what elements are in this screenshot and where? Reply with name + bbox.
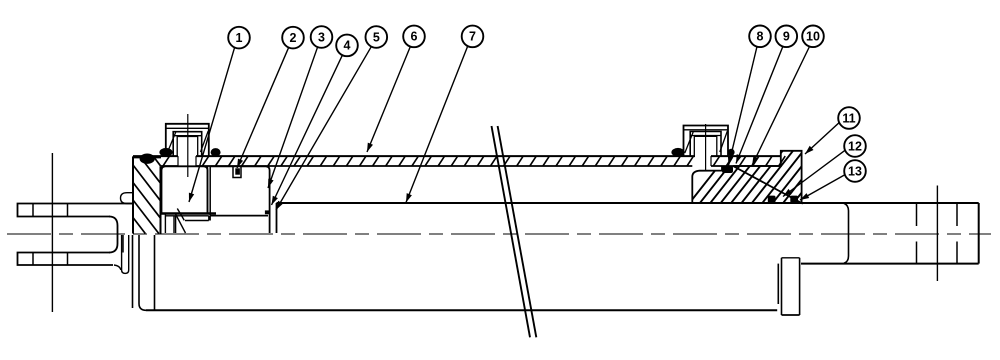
svg-text:4: 4 <box>344 39 351 53</box>
gland O-ring (black) <box>722 166 733 173</box>
barrel bottom outline <box>146 309 777 311</box>
cap hatching <box>133 157 161 233</box>
left port seals (black) <box>159 148 172 157</box>
main horizontal centerline <box>7 233 991 235</box>
rod seal (black) <box>768 196 776 203</box>
rod thread lines <box>916 203 918 226</box>
svg-text:13: 13 <box>848 164 862 178</box>
weep hole detail <box>233 166 241 178</box>
piston nut details <box>162 212 217 214</box>
barrel top wall outline <box>133 155 178 157</box>
left port centerline <box>187 114 189 177</box>
clevis base boss exterior (below centerline) <box>114 235 129 273</box>
leader 7 <box>406 47 468 203</box>
balloon 1 <box>228 27 250 49</box>
svg-text:8: 8 <box>757 30 764 44</box>
leader 4 <box>272 55 343 205</box>
leader 2 <box>237 48 289 168</box>
balloon 13 <box>844 160 866 182</box>
rod-end vertical centerline <box>936 186 938 282</box>
svg-text:11: 11 <box>842 111 855 125</box>
leader 13 <box>800 175 845 201</box>
balloon 12 <box>844 135 866 157</box>
balloon 8 <box>749 26 771 48</box>
barrel wall hatching <box>163 156 785 166</box>
rod bottom (right of gland) <box>801 263 979 265</box>
weld bead top <box>121 193 134 204</box>
port hole edges in barrel wall <box>177 156 179 166</box>
clevis vertical centerline <box>51 153 53 312</box>
rod break line right <box>498 126 537 337</box>
leader 5 <box>276 47 371 210</box>
left port fitting <box>166 124 209 156</box>
piston rod top <box>277 202 979 204</box>
retainer ring exterior lower half <box>777 264 779 304</box>
svg-text:12: 12 <box>848 139 862 153</box>
clevis slot rounded end <box>109 217 118 253</box>
svg-text:3: 3 <box>318 30 325 44</box>
leader 12 <box>783 150 845 196</box>
right port centerline <box>705 124 707 171</box>
svg-text:6: 6 <box>411 30 418 44</box>
right port thread lines <box>685 132 693 153</box>
leader 11 <box>805 122 840 154</box>
clevis arm tick lines <box>32 204 34 217</box>
balloon 2 <box>282 27 304 49</box>
piston seal (black) <box>265 210 270 214</box>
cap inner spacer block <box>162 166 208 213</box>
piston rod connection <box>276 203 278 233</box>
rod shoulder with relief grooves <box>844 203 849 263</box>
balloon 6 <box>403 26 425 48</box>
balloon 11 <box>838 107 860 129</box>
leader 10 <box>752 47 810 166</box>
piston body <box>210 166 269 233</box>
svg-text:10: 10 <box>806 30 820 44</box>
balloon 7 <box>462 26 484 48</box>
clevis top arm <box>18 204 134 217</box>
balloon 3 <box>311 26 333 48</box>
balloon 9 <box>776 26 798 48</box>
svg-text:1: 1 <box>236 31 243 45</box>
cap corner O-ring (black) <box>140 154 155 164</box>
right port seals (black) <box>671 148 684 157</box>
right port fitting <box>684 126 729 157</box>
balloon 10 <box>802 26 824 48</box>
rod end face <box>978 203 980 264</box>
gland and retainer outline <box>692 151 801 203</box>
svg-text:7: 7 <box>469 30 476 44</box>
rod break line left <box>492 126 531 337</box>
leader 9 <box>736 47 783 164</box>
leader 1 <box>189 48 235 202</box>
spacer/piston separator <box>207 166 209 213</box>
leader 6 <box>367 47 410 152</box>
svg-text:2: 2 <box>290 31 297 45</box>
cap outline <box>133 157 161 233</box>
svg-text:5: 5 <box>373 30 380 44</box>
balloon 5 <box>366 26 388 48</box>
clevis bottom arm <box>18 253 114 266</box>
balloon 4 <box>336 35 358 57</box>
svg-text:9: 9 <box>783 30 790 44</box>
rod wiper (black) <box>790 196 798 203</box>
clevis base edge below centerline <box>122 235 124 253</box>
leader 3 <box>268 47 318 188</box>
left port thread lines <box>167 132 176 153</box>
leader 8 <box>729 47 758 166</box>
cap lower exterior lines <box>132 235 134 308</box>
